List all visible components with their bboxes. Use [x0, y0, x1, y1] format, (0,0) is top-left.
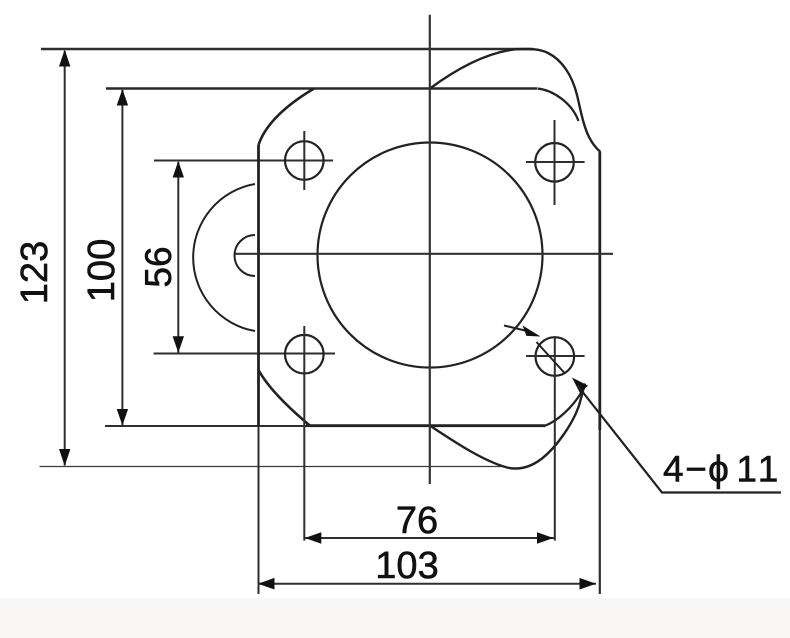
plate left edge [257, 145, 260, 426]
bottom inner wave curve [546, 386, 585, 426]
callout arrow on circle near bottom-right hole [504, 326, 527, 332]
extension of plate right edge down to 103 dimension [599, 430, 601, 594]
svg-text:103: 103 [375, 545, 438, 587]
extension line bottom (123 lower, tangent to wave trough) [40, 466, 506, 468]
horizontal centerline [235, 253, 613, 255]
bolt hole top-right horizontal axis [526, 161, 585, 163]
svg-text:100: 100 [81, 239, 123, 302]
dimension line 100 [121, 90, 123, 426]
bottom scan band [0, 598, 790, 638]
arrow 100 down [117, 409, 128, 426]
vertical centerline [429, 15, 431, 484]
arrow 123 up [59, 50, 70, 67]
dimension line 56 [177, 162, 179, 353]
bolt hole bottom-left vertical axis + 76 extension [303, 326, 305, 541]
bolt hole top-left vertical axis [303, 131, 305, 190]
svg-text:123: 123 [14, 241, 56, 304]
extension line (56 upper / top-left hole axis) [154, 160, 333, 162]
bolt hole bottom-right horizontal axis [526, 355, 585, 357]
arrow 123 down [59, 449, 70, 466]
bolt hole top-right vertical axis [554, 120, 556, 205]
bottom outer wave curl [430, 384, 585, 469]
dimension line 103 [258, 583, 596, 585]
extension of plate left edge down to 103 dimension [258, 426, 260, 594]
dimension line 123 [64, 51, 66, 466]
bolt hole bottom-right [536, 337, 575, 376]
extension line (100 upper / plate top edge) [106, 87, 537, 90]
arrow 103 left [258, 578, 275, 590]
bolt hole top-left [285, 141, 324, 180]
top inner wave curve [538, 89, 579, 122]
extension line top (123 upper, tangent to wave peak) [41, 48, 533, 50]
big central circle (swivel race) [318, 143, 543, 368]
leader arrow to bottom-right hole [572, 378, 588, 394]
arrow 76 left [305, 532, 322, 544]
leader slash through bottom-right hole [537, 342, 566, 374]
plate bottom edge [306, 424, 546, 427]
arrow 103 right [580, 578, 597, 590]
left outer boss arc [193, 184, 255, 331]
svg-text:76: 76 [396, 500, 438, 542]
plate top-left corner curve [259, 89, 315, 146]
bolt hole bottom-left [285, 335, 324, 374]
leader line 4-phi11 [578, 386, 782, 493]
svg-text:56: 56 [138, 246, 179, 287]
svg-text:4−ϕ11: 4−ϕ11 [663, 449, 780, 490]
dimension line 76 [304, 537, 554, 539]
arrow 100 up [117, 89, 128, 106]
left inner boss arc [234, 235, 255, 276]
bolt hole bottom-right vertical axis + 76 extension [554, 338, 556, 541]
extension line (100 lower, to left of plate) [105, 425, 310, 427]
plate bottom-left corner curve [259, 370, 311, 426]
plate right edge [598, 152, 601, 430]
arrow 56 up [173, 161, 184, 178]
arrow 76 right [537, 532, 554, 544]
extension line (56 lower / bottom-left hole axis) [154, 353, 336, 355]
top outer wave curl [430, 49, 601, 152]
bolt hole top-right [535, 143, 574, 182]
arrow 56 down [173, 336, 184, 353]
